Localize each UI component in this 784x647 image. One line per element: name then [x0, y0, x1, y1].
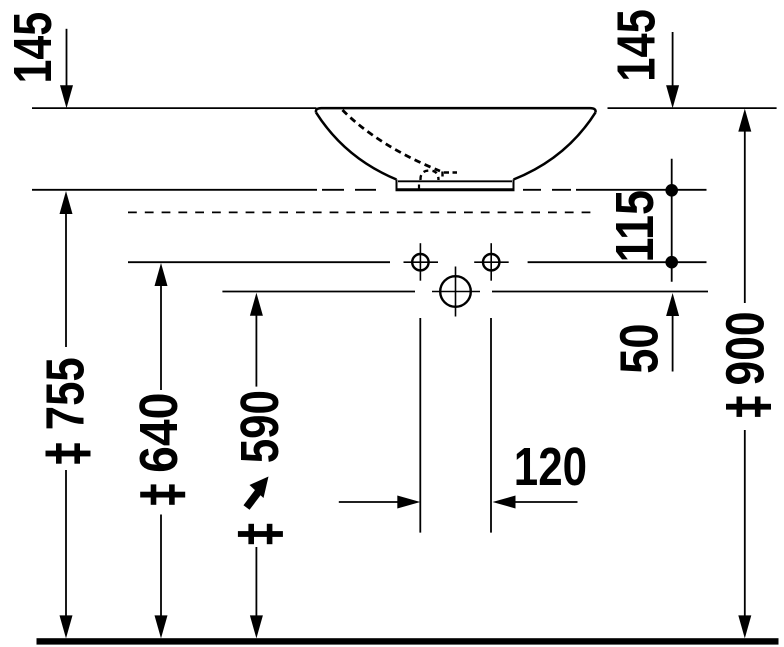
dimension 590 line: arrow up to faucet line, arrow down to floor [250, 293, 263, 639]
dimension 900 label [715, 311, 775, 385]
svg-text:590: 590 [230, 390, 290, 463]
dimension 120 extension line left [419, 318, 421, 533]
dimension 115 line with dots [665, 159, 678, 282]
hole centre line left [128, 261, 390, 263]
dimension 120 arrow left [339, 496, 421, 509]
floor line [37, 638, 779, 644]
faucet hole circle [440, 276, 471, 307]
dimension 590 pointer arrow glyph [247, 477, 269, 508]
dimension 755 plusminus symbol [46, 443, 91, 463]
dimension 145 right: arrow down to top line [666, 32, 679, 108]
dimension 145 right label [607, 9, 667, 82]
dimension 50 label [610, 324, 670, 374]
dimension 640 plusminus symbol [140, 484, 185, 504]
dimension 640 line: arrow up to hole line, arrow down to floor [155, 263, 168, 638]
svg-text:120: 120 [514, 437, 587, 497]
top reference line (basin rim level) [32, 107, 777, 109]
dimension 115 label [605, 190, 665, 263]
washbasin outer bowl [316, 108, 596, 179]
svg-text:640: 640 [129, 393, 189, 473]
washbasin foot [396, 180, 515, 190]
dimension 120 arrow right [493, 496, 578, 509]
dimension 145 left: arrow down to top line [60, 29, 73, 109]
dimension 50: arrow up to faucet line [666, 293, 679, 372]
svg-text:50: 50 [610, 324, 670, 374]
small hole right circle [483, 254, 499, 270]
svg-text:755: 755 [35, 357, 95, 430]
small hole left crosshair [404, 243, 439, 281]
dashed reference line [128, 211, 597, 213]
small hole right crosshair [474, 243, 509, 281]
dimension 900 plusminus symbol [726, 397, 771, 417]
faucet line right [492, 291, 708, 293]
dimension 755 label [35, 357, 95, 430]
svg-text:900: 900 [715, 311, 775, 385]
dimension 900 line: arrow up at top, arrow down at floor [738, 109, 751, 639]
dimension 755 line: arrow up to mounting line, arrow down to floor [60, 191, 73, 638]
mounting surface line right solid [576, 189, 707, 191]
dimension 145 left label [3, 12, 63, 84]
svg-text:145: 145 [607, 9, 667, 82]
hole centre line right [528, 261, 707, 263]
mounting surface line right dashes [523, 189, 571, 191]
svg-text:115: 115 [605, 190, 665, 263]
faucet hole crosshair [432, 267, 480, 317]
svg-text:145: 145 [3, 12, 63, 84]
dimension 640 label [129, 393, 189, 473]
dimension 120 extension line right [490, 318, 492, 533]
dimension 590 label [230, 390, 290, 463]
mounting surface line left solid [32, 189, 317, 191]
mounting surface line left dashes [322, 189, 376, 191]
dimension 120 label [514, 437, 587, 497]
washbasin hidden inner wall (dashed) [343, 110, 441, 171]
dimension 590 plusminus symbol [238, 524, 283, 544]
small hole left circle [412, 254, 428, 270]
drain hidden detail (dashed) [419, 171, 457, 190]
faucet line left [222, 291, 415, 293]
